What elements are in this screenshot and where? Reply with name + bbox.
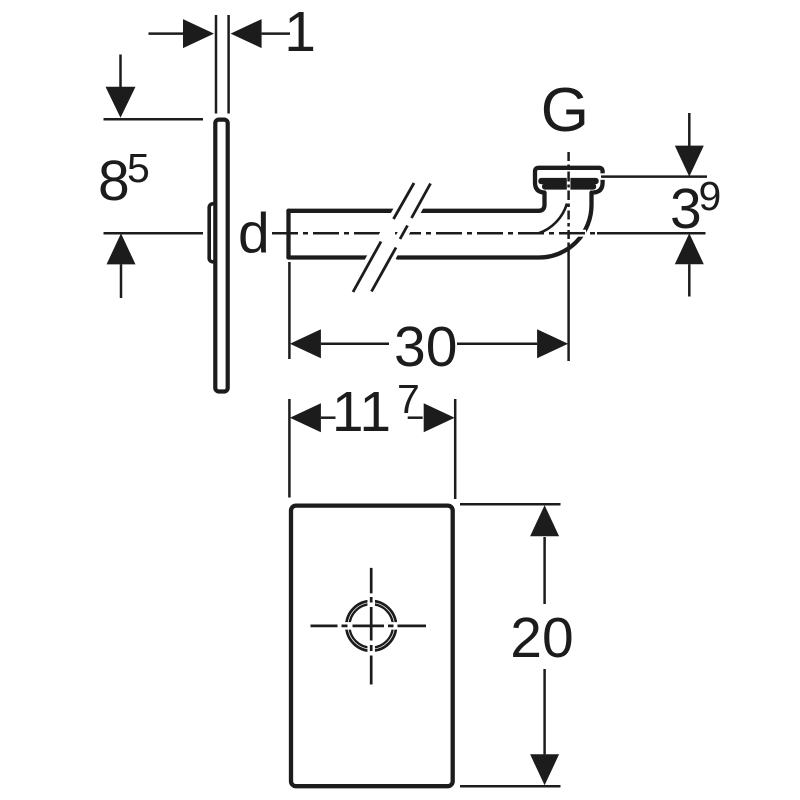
dimension 8.5: upper dimension line — [119, 55, 122, 89]
dimension 8.5: down arrow — [106, 87, 136, 118]
dimension 8.5: bottom extension line — [104, 232, 204, 235]
dimension 8.5: up arrow — [107, 233, 136, 264]
dimension 30: dimension line left segment — [321, 342, 389, 345]
dimension 1: right arrow — [231, 19, 262, 48]
G fitting outline — [535, 168, 603, 193]
svg-text:9: 9 — [699, 173, 722, 219]
pipe break diagonal line 2 — [372, 184, 431, 292]
pipe stub tab on plate (side view) — [209, 204, 222, 262]
dimension 20: top extension line — [460, 503, 561, 506]
pipe left end cap — [286, 211, 290, 258]
dimension 1: left dimension line — [149, 32, 186, 35]
svg-text:11: 11 — [332, 380, 391, 444]
pipe top edge with bend inner corner — [289, 193, 545, 211]
G fitting thread collar upper bar — [538, 178, 598, 184]
dimension 20: bottom extension line — [460, 785, 561, 788]
dimension 30: right extension line (solid) — [567, 245, 570, 361]
dimension 1: left arrow — [183, 19, 214, 48]
centerline white slot through collar — [567, 177, 571, 192]
dimension 11.7: right extension line — [454, 399, 457, 499]
dimension 3.9: lower dimension line — [688, 264, 691, 296]
svg-text:20: 20 — [510, 606, 573, 670]
dimension 20: dimension line upper segment — [543, 537, 546, 604]
dimension 30: left arrow — [290, 329, 321, 358]
elbow inner bend arc — [539, 204, 568, 234]
dimension 20: bottom arrow — [530, 754, 559, 785]
G fitting thread collar lower bar — [542, 184, 596, 190]
dimension 1: extension line left — [215, 15, 218, 114]
mounting plate (side view) — [215, 120, 227, 392]
fitting centerline dashes in slot — [567, 177, 570, 192]
dimension 3.9: up arrow — [675, 233, 704, 264]
hole crosshair horizontal — [311, 625, 427, 628]
dimension 30: dimension line right segment — [457, 342, 537, 345]
dimension 11.7: left arrow — [290, 403, 321, 432]
svg-text:d: d — [238, 202, 270, 266]
dimension 8.5: lower dimension line — [120, 264, 123, 298]
dimension 30: left extension line — [288, 262, 291, 359]
dimension 30: right arrow — [537, 329, 568, 358]
centerline gap through elbow outer arc — [571, 230, 587, 237]
dimension 3.9: upper dimension line — [688, 113, 691, 146]
dimension 11.7: dimension line left segment — [321, 416, 336, 419]
dimension 1: extension line right — [227, 15, 230, 114]
hole outer circle — [346, 601, 396, 651]
pipe bottom edge and elbow outer arc — [289, 193, 592, 258]
hole crosshair vertical — [370, 568, 373, 685]
pipe break symbol: white casings — [353, 183, 414, 292]
dimension 11.7: right arrow — [424, 403, 455, 432]
crosshair white casings — [367, 568, 375, 685]
hole inner circle — [350, 604, 393, 647]
svg-text:1: 1 — [284, 0, 316, 64]
dimension 3.9: down arrow — [675, 146, 704, 177]
svg-text:7: 7 — [397, 376, 420, 422]
dimension 3.9: top extension line — [599, 173, 612, 180]
dimension 20: top arrow — [530, 505, 559, 536]
mounting plate (front view) — [291, 506, 453, 787]
svg-text:8: 8 — [98, 149, 130, 213]
dimension 8.5: top extension line — [104, 118, 204, 121]
svg-text:3: 3 — [670, 177, 702, 241]
pipe centerline (horizontal dash-dot) — [272, 232, 597, 235]
dimension 11.7: left extension line — [288, 399, 291, 498]
svg-text:30: 30 — [394, 315, 457, 379]
dimension 20: dimension line lower segment — [543, 669, 546, 754]
fitting vertical centerline upper (dash-dot) — [567, 152, 570, 245]
svg-text:5: 5 — [127, 145, 150, 191]
pipe break diagonal line 1 — [353, 183, 414, 292]
dimension 11.7: dimension line right segment — [408, 416, 423, 419]
dimension 1: right dimension line — [262, 32, 290, 35]
svg-text:G: G — [541, 76, 589, 145]
